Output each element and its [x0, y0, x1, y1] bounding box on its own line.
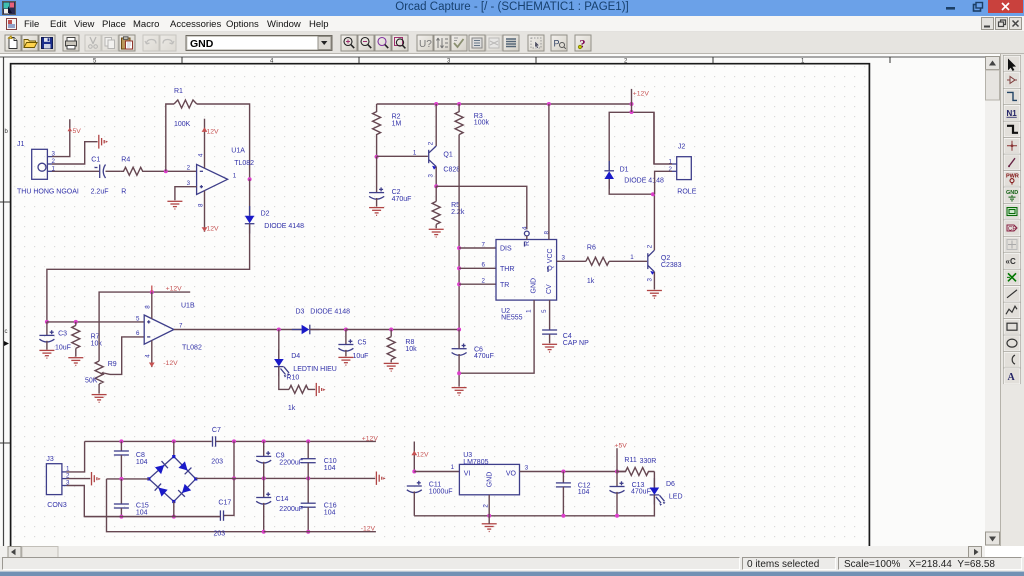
- wire Q2 collector up to relay loop: [653, 194, 655, 250]
- wire J1 pin2 to chassis ground: [52, 142, 98, 164]
- junction C11 node: [412, 470, 416, 474]
- svg-text:2.2k: 2.2k: [451, 209, 465, 216]
- project manager: [551, 35, 567, 51]
- svg-text:-12V: -12V: [361, 525, 376, 532]
- junction C12 top: [561, 470, 565, 474]
- junction R7 top: [74, 320, 78, 324]
- svg-text:6: 6: [136, 330, 140, 337]
- svg-text:1M: 1M: [392, 120, 402, 127]
- wire R9 wiper to U1B pin6: [110, 337, 144, 375]
- svg-text:TL082: TL082: [234, 160, 254, 167]
- svg-text:LEDTIN HIEU: LEDTIN HIEU: [293, 366, 337, 373]
- wire THR: [459, 267, 496, 269]
- svg-text:6: 6: [482, 262, 486, 269]
- svg-text:Q1: Q1: [443, 152, 452, 159]
- junction C9 bottom: [262, 476, 266, 480]
- ground under U1A pin3: [167, 201, 182, 209]
- wire R1 left leg: [166, 104, 174, 171]
- svg-text:1: 1: [630, 254, 634, 261]
- svg-text:C9: C9: [276, 453, 285, 460]
- wire AC lower rail continues: [219, 516, 221, 518]
- svg-text:3: 3: [187, 180, 191, 187]
- svg-text:-12V: -12V: [163, 360, 178, 367]
- print: [63, 35, 79, 51]
- wire 555 CV pin5: [549, 300, 551, 330]
- svg-text:+12V: +12V: [633, 90, 650, 97]
- ground under R5: [429, 229, 444, 237]
- svg-text:A: A: [1008, 372, 1016, 383]
- junction R2 base node: [375, 155, 379, 159]
- junction C12 bottom: [561, 514, 565, 518]
- save: [39, 35, 55, 51]
- wire regulator ground rail: [414, 495, 654, 516]
- svg-text:R6: R6: [587, 245, 596, 252]
- junction C3 node: [45, 320, 49, 324]
- svg-text:10k: 10k: [405, 346, 417, 353]
- junction column C5 wire: [457, 328, 461, 332]
- svg-text:CON3: CON3: [47, 502, 67, 509]
- wire J1 pin1 to C1: [52, 170, 99, 172]
- wire U3 pin2: [488, 495, 490, 516]
- svg-text:C3: C3: [58, 331, 67, 338]
- undo (disabled): [143, 35, 159, 51]
- resistor R2: [373, 104, 402, 157]
- svg-text:THU HONG NGOAI: THU HONG NGOAI: [17, 189, 79, 196]
- connector J3: [46, 456, 70, 509]
- svg-text:5: 5: [136, 315, 140, 322]
- wire bridge left to mid-left segment: [107, 478, 149, 480]
- svg-text:D3: D3: [296, 309, 305, 316]
- junction Q1 emitter node: [434, 184, 438, 188]
- cut (disabled): [85, 35, 101, 51]
- junction C15 bottom: [119, 515, 123, 519]
- LED D6: [650, 472, 683, 506]
- wire U1A pin3 to ground: [175, 187, 197, 201]
- svg-text:VI: VI: [464, 471, 471, 478]
- svg-text:C2: C2: [392, 189, 401, 196]
- help: [575, 35, 591, 51]
- resistor R10: [288, 385, 315, 411]
- bridge diode bottom-right: [178, 484, 191, 497]
- svg-text:N1: N1: [1007, 109, 1018, 118]
- bridge diode top-right: [178, 461, 191, 474]
- svg-text:2: 2: [646, 244, 653, 248]
- op-amp U1B: [136, 303, 202, 358]
- svg-text:R8: R8: [405, 339, 414, 346]
- svg-text:R: R: [121, 189, 126, 196]
- wire C1 to R4: [106, 170, 121, 172]
- junction Q1 collector: [434, 102, 438, 106]
- svg-text:CAP NP: CAP NP: [563, 340, 589, 347]
- svg-text:D6: D6: [666, 481, 675, 488]
- svg-text:1000uF: 1000uF: [429, 488, 453, 495]
- transistor Q2: [646, 244, 681, 281]
- svg-text:NE555: NE555: [501, 315, 523, 322]
- svg-text:8: 8: [144, 305, 151, 309]
- capacitor C15: [114, 479, 149, 517]
- right tool palette: [1000, 54, 1024, 546]
- svg-text:3: 3: [562, 254, 566, 261]
- capacitor C7: [211, 427, 223, 466]
- redo (disabled): [160, 35, 176, 51]
- transistor Q1: [413, 141, 460, 177]
- svg-text:GND: GND: [531, 278, 538, 294]
- power +12V main: [632, 89, 650, 104]
- bridge rectifier: [147, 455, 197, 503]
- junction D4 tap: [277, 328, 281, 332]
- svg-text:2.2uF: 2.2uF: [91, 189, 109, 196]
- wire bridge bottom stub: [173, 502, 175, 517]
- zoom in: [341, 35, 357, 51]
- svg-text:7: 7: [179, 323, 183, 330]
- ground under C3: [39, 350, 54, 358]
- svg-text:C4: C4: [563, 333, 572, 340]
- bridge diode bottom-left: [155, 484, 168, 497]
- diode D3: [292, 309, 350, 335]
- ground under Q2: [647, 291, 662, 299]
- capacitor C8: [114, 441, 148, 479]
- junction at R1 tap: [164, 169, 168, 173]
- svg-text:104: 104: [136, 509, 148, 516]
- svg-text:GND: GND: [190, 38, 214, 50]
- diode D1: [604, 161, 664, 189]
- svg-text:203: 203: [211, 458, 223, 465]
- svg-text:470uF: 470uF: [474, 353, 494, 360]
- svg-text:4: 4: [144, 354, 151, 358]
- svg-text:J3: J3: [46, 456, 54, 463]
- junction DIS: [457, 246, 461, 250]
- wire C5 node to R8 node to 555 column: [346, 329, 459, 331]
- svg-text:8: 8: [198, 203, 205, 207]
- capacitor C5: [338, 330, 368, 361]
- svg-text:12V: 12V: [416, 451, 429, 458]
- wire J1 pin3 to +5V: [52, 119, 70, 156]
- svg-text:C14: C14: [276, 496, 289, 503]
- svg-text:J1: J1: [17, 141, 25, 148]
- wire +12V top rail: [377, 103, 632, 105]
- svg-text:104: 104: [578, 489, 590, 496]
- svg-text:470uF: 470uF: [631, 489, 651, 496]
- svg-text:R2: R2: [392, 113, 401, 120]
- svg-text:4: 4: [522, 226, 529, 230]
- resistor R8: [387, 330, 417, 363]
- svg-text:LM7805: LM7805: [463, 459, 488, 466]
- wire +12V to loop: [631, 104, 633, 112]
- svg-text:1: 1: [451, 464, 455, 471]
- ground under C6: [452, 388, 467, 396]
- window chrome: [0, 0, 1024, 16]
- wire D3 to C5 node: [310, 329, 346, 331]
- junction U1B power: [150, 290, 154, 294]
- power +12V U1A: [202, 119, 219, 169]
- vertical scrollbar: [985, 56, 1000, 546]
- junction +12V symbol: [630, 102, 634, 106]
- junction GND return: [457, 371, 461, 375]
- ground under R8: [384, 363, 399, 371]
- svg-text:50K: 50K: [85, 377, 98, 384]
- svg-text:«C: «C: [1006, 257, 1016, 266]
- resistor R11: [617, 457, 656, 476]
- capacitor C13: [610, 472, 651, 517]
- svg-text:VO: VO: [506, 471, 517, 478]
- horizontal scrollbar: [0, 546, 985, 558]
- svg-text:10k: 10k: [91, 341, 103, 348]
- junction bridge top feed: [172, 439, 176, 443]
- wire U3 VO output: [520, 471, 626, 473]
- svg-text:100k: 100k: [474, 120, 490, 127]
- connector J2: [669, 143, 697, 195]
- back annotate: [434, 35, 450, 51]
- wire TR: [459, 283, 496, 285]
- capacitor C12: [556, 472, 591, 517]
- wire -12V rail: [264, 531, 376, 533]
- svg-text:CV: CV: [546, 284, 553, 294]
- wire relay loop top: [609, 112, 654, 170]
- svg-text:+5V: +5V: [615, 442, 628, 449]
- junction U1A output: [248, 177, 252, 181]
- wire AC lower rail to C17: [84, 516, 220, 518]
- snap: [528, 35, 544, 51]
- wire R6 to Q2 base: [609, 260, 647, 262]
- svg-text:C17: C17: [218, 499, 231, 506]
- power +5V: [68, 128, 82, 136]
- junction loop top: [630, 110, 634, 114]
- capacitor C16: [301, 478, 337, 531]
- copy (disabled): [102, 35, 118, 51]
- wire mid-right rail: [196, 477, 375, 479]
- svg-text:D1: D1: [620, 166, 629, 173]
- wire D4 to R10: [279, 367, 289, 390]
- svg-text:c: c: [5, 329, 8, 335]
- junction R3 top: [457, 102, 461, 106]
- svg-text:2: 2: [482, 504, 489, 508]
- svg-text:TR: TR: [500, 282, 509, 289]
- svg-text:R1: R1: [174, 88, 183, 95]
- regulator U3 LM7805: [459, 452, 528, 507]
- wire Q1 collector: [435, 104, 437, 146]
- ground under C5: [338, 357, 353, 365]
- open: [22, 35, 38, 51]
- svg-text:12V: 12V: [207, 225, 220, 232]
- netlist: [469, 35, 485, 51]
- svg-text:C1: C1: [91, 157, 100, 164]
- power +5V: [615, 442, 628, 471]
- junction C10 top: [306, 439, 310, 443]
- zoom area: [375, 35, 391, 51]
- zoom out: [358, 35, 374, 51]
- svg-text:C7: C7: [212, 427, 221, 434]
- junction C9 top: [262, 439, 266, 443]
- ground (sideways) after R10: [316, 383, 325, 396]
- svg-text:1k: 1k: [288, 405, 296, 412]
- svg-text:12V: 12V: [207, 128, 220, 135]
- junction TR: [457, 282, 461, 286]
- svg-text:R7: R7: [91, 334, 100, 341]
- svg-text:C828: C828: [443, 167, 460, 174]
- svg-text:1k: 1k: [587, 278, 595, 285]
- wire U1B output to D3: [174, 329, 302, 331]
- capacitor C6: [452, 344, 494, 361]
- svg-text:LED: LED: [669, 494, 683, 501]
- svg-text:5V: 5V: [73, 128, 82, 135]
- svg-text:ROLE: ROLE: [677, 188, 696, 195]
- resistor R1: [174, 88, 197, 128]
- power +12V regulator input: [411, 442, 429, 472]
- resistor R6: [586, 245, 609, 286]
- svg-text:1: 1: [413, 150, 417, 157]
- wire output to D2: [249, 179, 251, 215]
- svg-text:DIS: DIS: [500, 246, 512, 253]
- junction C8 top: [119, 439, 123, 443]
- resistor R3: [455, 104, 489, 135]
- svg-text:DIODE 4148: DIODE 4148: [264, 223, 304, 230]
- resistor R5: [432, 186, 465, 228]
- svg-text:470uF: 470uF: [392, 196, 412, 203]
- wire D1 anode down and loop bottom: [609, 179, 653, 194]
- svg-text:TL082: TL082: [182, 344, 202, 351]
- ground (sideways) mid rail end: [376, 472, 385, 485]
- svg-text:10uF: 10uF: [55, 345, 71, 352]
- junction C13 bottom: [615, 514, 619, 518]
- svg-text:3: 3: [646, 278, 653, 282]
- wire C6 leads: [458, 330, 460, 349]
- diode D2: [245, 206, 304, 234]
- svg-text:VCC: VCC: [547, 248, 554, 263]
- svg-text:2200uF: 2200uF: [279, 506, 303, 513]
- junction C10 bottom: [306, 476, 310, 480]
- wire x234 down to C17 wire: [224, 478, 234, 515]
- wire J3 pin1 to AC top rail: [67, 441, 85, 472]
- svg-text:CP: CP: [1008, 227, 1016, 233]
- capacitor C1: [91, 157, 109, 196]
- svg-text:C2383: C2383: [661, 262, 682, 269]
- resistor R4: [121, 157, 145, 196]
- svg-text:104: 104: [324, 509, 336, 516]
- power -12V U1A: [202, 191, 219, 233]
- svg-text:R11: R11: [624, 457, 636, 464]
- svg-text:+12V: +12V: [166, 285, 183, 292]
- wire mid-left corner down to -12V rail: [107, 479, 264, 532]
- svg-text:4: 4: [197, 153, 204, 157]
- svg-text:D2: D2: [261, 211, 270, 218]
- svg-text:2: 2: [187, 165, 191, 172]
- zoom all: [392, 35, 408, 51]
- svg-text:DIODE 4148: DIODE 4148: [310, 309, 350, 316]
- svg-text:U1A: U1A: [231, 147, 245, 154]
- junction bridge bottom: [172, 515, 176, 519]
- wire 555 output pin3 to R6: [557, 260, 586, 262]
- wire emitter node to 555 reset: [436, 186, 527, 229]
- svg-text:U1B: U1B: [181, 303, 195, 310]
- wire J3 pin3 to AC lower rail: [67, 486, 220, 517]
- svg-text:104: 104: [324, 465, 336, 472]
- wire AC top rail: [85, 440, 212, 442]
- ground (sideways) J3 pin2: [92, 472, 101, 485]
- svg-text:3: 3: [525, 465, 529, 472]
- wire J3 pin2 to chassis ground: [67, 478, 91, 480]
- wire J2 pin2: [655, 171, 672, 194]
- drc: [451, 35, 467, 51]
- wire Q1 emitter: [435, 167, 437, 187]
- svg-text:1: 1: [525, 309, 532, 313]
- ground under C2: [369, 208, 384, 216]
- wire base node to Q1: [377, 155, 428, 157]
- wire D2 to U1B input loop: [47, 224, 250, 322]
- connector J1: [17, 141, 79, 196]
- power -12V U1B: [149, 340, 178, 367]
- pin 4 reset circle: [524, 231, 529, 236]
- svg-text:2: 2: [482, 278, 486, 285]
- junction THR: [457, 266, 461, 270]
- ground under U3: [482, 524, 497, 532]
- junction C5 node: [344, 328, 348, 332]
- wire U1B pin8 power: [151, 292, 153, 319]
- junction x234 mid: [232, 476, 236, 480]
- paste: [119, 35, 135, 51]
- wire J2 pin1: [654, 112, 672, 164]
- svg-text:100K: 100K: [174, 121, 191, 128]
- svg-text:R10: R10: [286, 375, 299, 382]
- capacitor C10: [301, 441, 337, 478]
- svg-text:P: P: [554, 39, 560, 49]
- wire DIS: [459, 247, 496, 249]
- wire to U3 VI: [414, 471, 459, 473]
- ground (sideways) near C1: [99, 135, 108, 149]
- junction x234 top: [232, 439, 236, 443]
- potentiometer R9: [85, 361, 117, 394]
- svg-text:2200uF: 2200uF: [279, 460, 303, 467]
- svg-text:J2: J2: [678, 143, 686, 150]
- capacitor C9: [256, 441, 303, 478]
- wire R3 to DIS column: [458, 135, 460, 330]
- svg-text:DIODE 4148: DIODE 4148: [624, 177, 664, 184]
- wire cross link x234: [233, 441, 235, 478]
- new: [5, 35, 21, 51]
- capacitor C14: [256, 478, 303, 531]
- bom: [503, 35, 519, 51]
- svg-text:THR: THR: [500, 266, 514, 273]
- svg-text:Q2: Q2: [661, 255, 670, 262]
- capacitor C3: [39, 322, 71, 352]
- bridge diode top-left: [155, 461, 168, 474]
- LED D4: [274, 330, 337, 382]
- resistor R7: [72, 322, 103, 357]
- svg-text:5: 5: [541, 309, 548, 313]
- svg-text:104: 104: [136, 459, 148, 466]
- svg-text:U?: U?: [419, 39, 432, 50]
- wire +12V rail U1B: [99, 292, 190, 361]
- capacitor C11: [407, 481, 453, 516]
- capacitor C2: [369, 157, 411, 207]
- junction C8 bottom: [119, 477, 123, 481]
- junction C14 bottom: [262, 530, 266, 534]
- junction C16 bottom: [306, 530, 310, 534]
- svg-text:GND: GND: [487, 472, 494, 488]
- svg-text:R9: R9: [108, 361, 117, 368]
- wire bridge top stub: [173, 441, 175, 456]
- svg-text:C5: C5: [358, 340, 367, 347]
- ground under C4: [542, 344, 557, 352]
- cross ref (disabled): [486, 35, 502, 51]
- wire R4 to U1A pin2: [145, 170, 197, 172]
- svg-text:+12V: +12V: [362, 435, 379, 442]
- ground under R9: [92, 395, 107, 403]
- svg-text:R4: R4: [121, 157, 130, 164]
- ground under R7: [68, 358, 83, 366]
- junction U3 GND: [487, 514, 491, 518]
- svg-text:2: 2: [427, 141, 434, 145]
- junction 555 VCC: [547, 102, 551, 106]
